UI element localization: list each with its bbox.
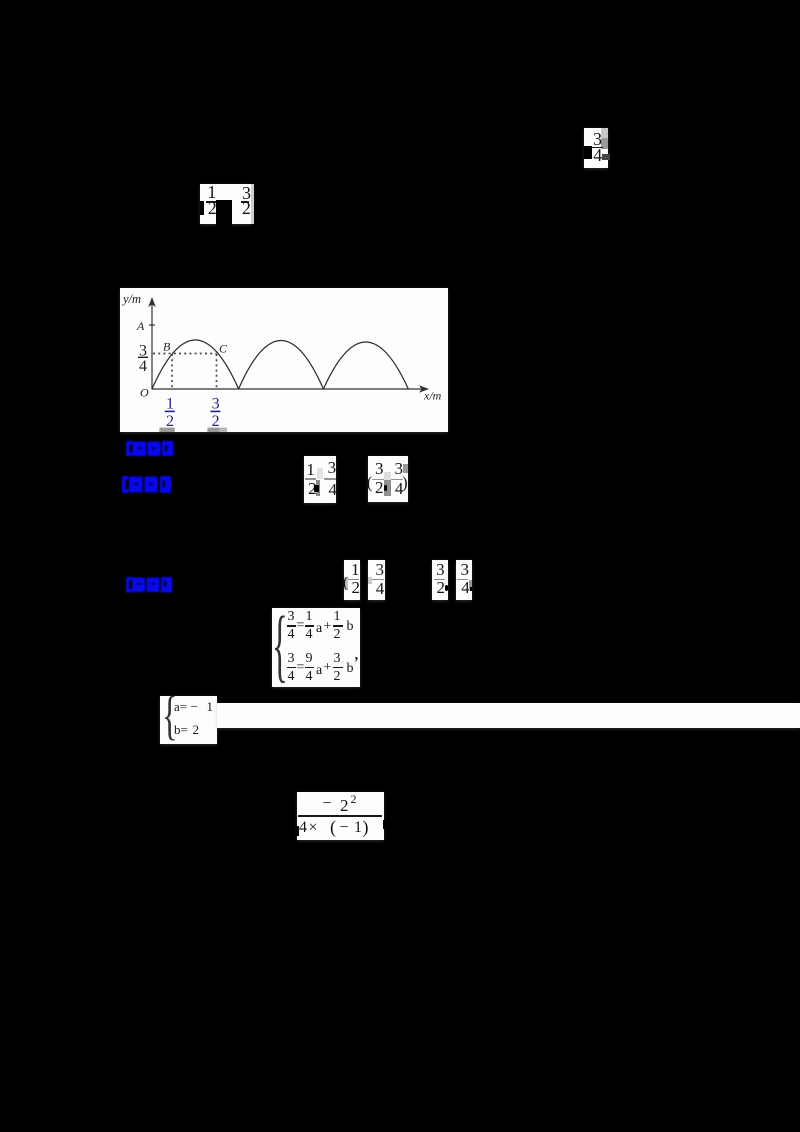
hump 3 [323,342,408,389]
svg-text:x/m: x/m [423,389,442,403]
row3 p3: 3/2 [432,560,448,600]
svg-text:2: 2 [212,413,220,430]
gray blocks bottom [159,428,174,432]
hump 1 [152,340,239,389]
x-axis [152,388,424,390]
svg-text:1: 1 [166,396,174,413]
a=-1 b=2 patch [160,696,217,744]
blue blob row 2 [116,471,178,497]
patch B: (3/2, 3/4) [368,456,408,502]
dotted horizontal at 3/4 [153,353,217,355]
white band [217,703,800,728]
svg-text:B: B [163,340,171,354]
dotted vertical from B [171,354,173,388]
equation system patch [272,608,360,687]
dotted vertical from C [216,354,218,388]
eq2 [288,652,295,666]
row3 p2: 3/4 [368,560,385,600]
svg-text:4: 4 [139,358,147,375]
svg-text:O: O [140,386,149,400]
row3 p4: 3/4 [456,560,472,600]
hump 2 [239,341,324,390]
patch F1: fraction 3/4 top right [584,128,608,168]
tick A [149,324,155,326]
eq1 [288,610,295,624]
svg-text:y/m: y/m [121,292,141,306]
svg-text:2: 2 [166,413,174,430]
svg-text:3: 3 [212,396,220,413]
patch F2: 1/2 [black] 3/2 [200,184,252,224]
y-axis [151,304,153,390]
svg-text:C: C [219,342,228,356]
final fraction patch: -2^2 / 4x(-1) [297,792,384,840]
blue blob row 1 [120,437,180,459]
svg-text:A: A [136,319,145,333]
graph patch [120,288,448,432]
comma [355,648,359,663]
row3 p1: 1/2 [344,560,360,600]
patch A: (1/2, 3/4) [304,456,336,503]
blue blob row 3 [120,572,178,598]
